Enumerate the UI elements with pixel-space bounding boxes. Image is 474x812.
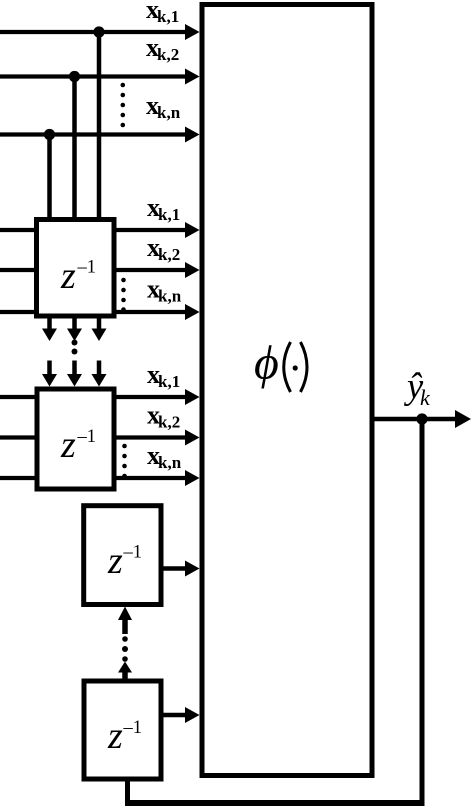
wire Z2 left stub 1 xyxy=(0,395,40,399)
svg-text:z: z xyxy=(107,715,123,757)
ellipsis dot between Z3 and Z4 xyxy=(122,636,128,642)
svg-text:z: z xyxy=(60,255,76,297)
wire feedback right vertical xyxy=(420,419,425,800)
arrow into Z2 top 1 xyxy=(42,361,57,387)
svg-text:k,2: k,2 xyxy=(157,45,179,64)
wire feedback up into Z4 bottom xyxy=(125,779,130,803)
delay block Z3 (feedback) xyxy=(84,506,161,605)
wire Z2 left stub 2 xyxy=(0,435,40,439)
arrow into Z2 top 2 xyxy=(67,361,82,387)
wire Z2 output x_k,2 to PHI xyxy=(112,430,200,446)
label x_k,1 top xyxy=(146,0,179,26)
svg-text:z: z xyxy=(60,424,76,466)
ellipsis dots between Z1 and Z2 xyxy=(72,340,78,355)
wire feedback bottom horizontal xyxy=(125,800,425,806)
wire input x_k2 xyxy=(0,69,200,85)
label z^-1 of Z3 xyxy=(107,540,142,582)
label x_k,2 top xyxy=(146,33,179,64)
arrow Z1 bottom out 2 xyxy=(67,318,82,341)
label x_k,n top xyxy=(146,91,181,122)
block PHI (nonlinear function box) xyxy=(202,5,372,776)
wire Z1 output x_k,n to PHI xyxy=(112,304,200,320)
junction node on x_k2 xyxy=(69,71,80,82)
label y_k hat xyxy=(403,365,431,410)
svg-text:–1: –1 xyxy=(123,543,143,563)
arrow Z1 bottom out 3 xyxy=(92,318,107,341)
wire input x_k1 xyxy=(0,24,200,40)
label phi(.) xyxy=(254,337,307,393)
svg-text:k,1: k,1 xyxy=(158,205,180,224)
svg-text:k,2: k,2 xyxy=(158,413,180,432)
svg-text:k,1: k,1 xyxy=(158,372,180,391)
wire Z1 left stub 2 xyxy=(0,268,39,272)
label x_k,n Z2 xyxy=(147,441,182,472)
svg-text:–1: –1 xyxy=(123,718,143,738)
wire Z2 output x_k,n to PHI xyxy=(112,470,200,486)
ellipsis dots top inputs xyxy=(121,83,126,128)
label x_k,1 Z2 xyxy=(147,360,180,391)
junction node on x_k1 xyxy=(93,26,104,37)
label z^-1 of Z2 xyxy=(60,424,96,466)
wire tap from x_kn down to Z1 xyxy=(47,135,52,222)
svg-text:k,n: k,n xyxy=(158,453,182,472)
svg-text:–1: –1 xyxy=(77,427,97,447)
label x_k,n Z1 xyxy=(147,275,182,306)
wire Z2 output x_k,1 to PHI xyxy=(112,389,200,405)
wire tap from x_k1 down to Z1 xyxy=(97,32,102,221)
delay block Z4 (feedback) xyxy=(84,681,161,779)
wire Z1 output x_k,2 to PHI xyxy=(112,262,200,278)
wire Z2 left stub 3 xyxy=(0,476,40,480)
wire PHI output y_k xyxy=(372,410,471,428)
svg-text:k,1: k,1 xyxy=(157,7,179,26)
svg-text:z: z xyxy=(107,540,123,582)
arrow into Z3 bottom xyxy=(118,607,132,635)
arrow from Z4 top up xyxy=(118,662,132,684)
arrow into Z2 top 3 xyxy=(92,361,107,387)
wire Z1 left stub 1 xyxy=(0,228,39,232)
svg-text:k,2: k,2 xyxy=(158,245,180,264)
arrow Z1 bottom out 1 xyxy=(42,318,57,341)
junction node on x_kn xyxy=(44,129,55,140)
label z^-1 of Z4 xyxy=(107,715,142,757)
wire Z3 output to PHI xyxy=(159,561,200,577)
ellipsis dots Z2 outputs xyxy=(122,444,127,479)
ellipsis dots Z1 outputs xyxy=(121,278,126,312)
label x_k,2 Z2 xyxy=(147,401,180,432)
svg-text:k,n: k,n xyxy=(157,103,181,122)
svg-text:–1: –1 xyxy=(77,258,97,278)
svg-text:ϕ: ϕ xyxy=(254,337,279,390)
svg-text:k,n: k,n xyxy=(158,287,182,306)
label x_k,2 Z1 xyxy=(147,233,180,264)
junction node on output xyxy=(416,413,427,424)
delay block Z1 xyxy=(37,220,115,317)
wire Z4 output to PHI xyxy=(159,707,200,723)
wire Z1 left stub 3 xyxy=(0,310,39,314)
label x_k,1 Z1 xyxy=(147,193,180,224)
delay block Z2 xyxy=(37,389,114,489)
wire tap from x_k2 down to Z1 xyxy=(72,77,77,222)
svg-text:k: k xyxy=(420,385,431,410)
wire input x_kn xyxy=(0,127,200,143)
wire Z1 output x_k,1 to PHI xyxy=(112,222,200,238)
label z^-1 of Z1 xyxy=(60,255,96,297)
